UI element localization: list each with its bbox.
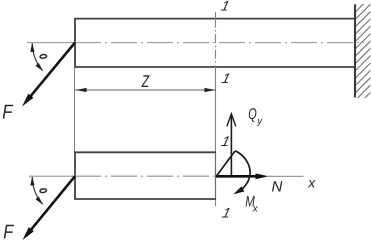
svg-text:Q: Q	[248, 106, 256, 123]
svg-text:F: F	[2, 102, 14, 124]
svg-text:x: x	[307, 174, 316, 190]
svg-text:N: N	[272, 178, 283, 195]
svg-text:Z: Z	[141, 72, 150, 91]
svg-text:x: x	[252, 203, 259, 214]
svg-text:F: F	[3, 222, 14, 244]
svg-text:y: y	[256, 116, 263, 127]
